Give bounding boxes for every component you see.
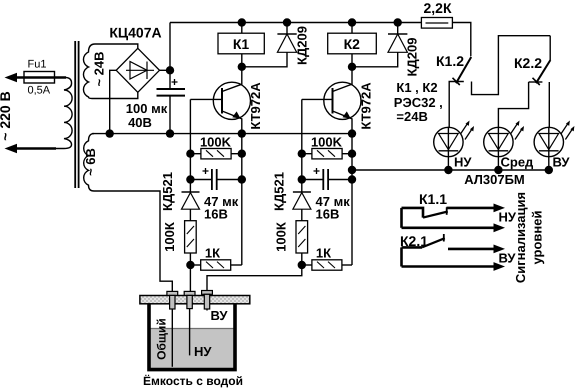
diode VD3 KD209 (K2)	[397, 23, 399, 35]
svg-text:ВУ: ВУ	[553, 155, 571, 170]
junction HL1 cathode on LED rail	[444, 166, 452, 174]
junction ch2 sensor node	[298, 261, 306, 269]
LED HL2 Sred	[484, 127, 513, 156]
junction Q2 emitter on 0V rail	[348, 129, 356, 137]
svg-text:0,5А: 0,5А	[27, 85, 50, 97]
svg-text:16В: 16В	[204, 207, 228, 222]
junction R1 left on Q1 base line	[186, 150, 194, 158]
junction R6 right on ch2 0V column	[348, 150, 356, 158]
junction K2 coil top on plus rail	[348, 18, 356, 26]
electrode NU	[184, 291, 195, 295]
junction Q2 collector node	[348, 63, 356, 71]
svg-text:КД521: КД521	[271, 172, 286, 211]
svg-text:2,2К: 2,2К	[423, 0, 451, 16]
junction VD3 cathode on plus rail	[394, 18, 402, 26]
junction HL2 cathode on LED rail	[494, 166, 502, 174]
svg-text:К1.2: К1.2	[436, 53, 464, 69]
svg-text:К1 , К2: К1 , К2	[396, 80, 437, 95]
svg-text:100K: 100K	[200, 135, 232, 150]
svg-text:КЦ407А: КЦ407А	[109, 25, 161, 41]
transistor Q1 KT972A	[213, 82, 250, 119]
transformer T1 core	[74, 41, 76, 188]
svg-text:~ 6В: ~ 6В	[83, 148, 98, 176]
diode VD5 KD521 (ch2)	[293, 191, 311, 193]
wire AC line 1 (top lead with arrow)	[15, 76, 66, 79]
tank walls	[149, 304, 235, 370]
junction C3 plus on Q2 base line	[298, 175, 306, 183]
contact K2.1 signaling	[402, 234, 495, 267]
wire AC line 2 (bottom lead with arrow)	[15, 147, 56, 150]
resistor R1 100K (ch1 base-emitter)	[201, 149, 231, 159]
svg-text:КТ972А: КТ972А	[359, 82, 374, 130]
LED HL3 VU	[534, 127, 563, 156]
junction VD2 cathode on plus rail	[283, 18, 291, 26]
transformer T1 secondary ~24V winding	[83, 44, 95, 99]
svg-text:+: +	[171, 75, 178, 89]
svg-text:Общий: Общий	[155, 318, 169, 360]
electrode common	[167, 291, 178, 295]
svg-text:РЭС32 ,: РЭС32 ,	[394, 95, 443, 110]
svg-text:К2: К2	[344, 36, 361, 52]
junction R1 right on ch1 0V column	[238, 150, 246, 158]
svg-text:100K: 100K	[311, 135, 343, 150]
svg-text:100К: 100К	[162, 222, 177, 252]
svg-text:1К: 1К	[316, 246, 331, 261]
wire ch1 sensor to electrode NU	[189, 265, 191, 292]
arrow AC lead 2	[5, 144, 18, 153]
wire bridge minus to 0V rail	[110, 70, 117, 133]
svg-text:КД209: КД209	[405, 38, 420, 77]
transformer T1 primary winding	[56, 78, 72, 149]
svg-text:НУ: НУ	[194, 344, 212, 359]
contact K1.1 signaling	[402, 207, 495, 228]
svg-text:К1: К1	[233, 36, 250, 52]
arrow AC lead 1	[5, 73, 18, 82]
svg-text:+: +	[202, 164, 209, 178]
channel 2 right column	[351, 134, 353, 265]
wire 2.2K to K1.2 common	[452, 23, 470, 57]
channel 2 base column	[301, 99, 303, 192]
diode VD2 KD209 (K1)	[286, 23, 288, 35]
junction C1 negative to 0V rail	[166, 129, 174, 137]
junction HL3 cathode on LED rail	[545, 166, 553, 174]
channel 1 right column	[241, 134, 243, 265]
junction R6 left on Q2 base line	[298, 150, 306, 158]
resistor R7 100K vertical (ch2)	[301, 209, 303, 221]
junction bridge minus to 0V rail	[106, 129, 114, 137]
resistor R6 100K (ch2 base-emitter)	[312, 149, 342, 159]
tank water	[151, 329, 234, 370]
LED HL1 NU	[434, 127, 463, 156]
wire 24V top to bridge	[95, 44, 138, 48]
relay K2 coil	[351, 23, 353, 34]
svg-text:НУ: НУ	[454, 155, 472, 170]
wire ch2 sensor to electrode VU	[207, 265, 302, 291]
diode VD4 KD521 (ch1)	[182, 191, 200, 193]
svg-text:Сред: Сред	[501, 155, 535, 170]
transformer T1 secondary ~6V winding	[84, 134, 94, 191]
svg-text:КД521: КД521	[160, 172, 175, 211]
svg-text:~ 220 В: ~ 220 В	[0, 91, 13, 140]
wire 6V winding to common electrode	[94, 191, 172, 292]
svg-text:Ёмкость с водой: Ёмкость с водой	[143, 374, 243, 388]
resistor R5 2.2K	[421, 18, 452, 29]
svg-text:=24В: =24В	[396, 109, 427, 124]
svg-text:~ 24В: ~ 24В	[92, 51, 107, 86]
wire 0V rail	[92, 133, 352, 135]
junction C3 minus on ch2 0V column	[348, 175, 356, 183]
wire 24V bottom to bridge bottom	[92, 92, 138, 98]
svg-text:К2.2: К2.2	[514, 55, 542, 71]
svg-text:16В: 16В	[316, 207, 340, 222]
resistor R3 1K (ch1)	[201, 260, 231, 270]
capacitor C1 100uF 40V	[169, 70, 171, 89]
bridge rectifier VD1 KC407A diamond	[116, 48, 159, 92]
svg-text:уровней: уровней	[530, 210, 545, 264]
tank lid	[140, 296, 250, 304]
wire bridge plus to top rail and cap	[160, 69, 171, 71]
svg-text:100К: 100К	[273, 222, 288, 252]
svg-text:Сигнализация: Сигнализация	[513, 192, 528, 283]
svg-text:КД209: КД209	[295, 26, 310, 65]
svg-text:Fu1: Fu1	[28, 59, 47, 71]
junction LED cathode rail to 0V column	[348, 166, 356, 174]
capacitor C3 47uF 16V (ch2)	[302, 179, 324, 181]
junction bridge plus output	[166, 66, 174, 74]
contact K2.2	[549, 36, 551, 60]
svg-text:ВУ: ВУ	[211, 308, 229, 323]
svg-text:КТ972А: КТ972А	[248, 82, 263, 130]
svg-text:АЛ307БМ: АЛ307БМ	[464, 172, 525, 187]
resistor R8 1K (ch2)	[312, 260, 342, 270]
svg-text:100 мк: 100 мк	[126, 101, 168, 116]
junction C2 minus on ch1 0V column	[238, 175, 246, 183]
junction Q1 collector node	[238, 63, 246, 71]
contact K1.2	[456, 57, 471, 83]
svg-text:+: +	[313, 164, 320, 178]
svg-text:К2.1: К2.1	[400, 233, 428, 249]
svg-text:40В: 40В	[128, 115, 152, 130]
svg-text:К1.1: К1.1	[419, 191, 447, 207]
junction C2 plus on Q1 base line	[186, 175, 194, 183]
electrode VU	[202, 291, 213, 295]
wire top rail	[170, 22, 421, 24]
fuse Fu1	[24, 72, 55, 84]
resistor R2 100K vertical (ch1)	[189, 209, 191, 221]
wire LED cathode rail	[352, 169, 549, 171]
relay K1 coil	[241, 23, 243, 34]
junction K1 coil top on plus rail	[238, 18, 246, 26]
junction Q1 emitter on 0V rail	[238, 129, 246, 137]
svg-text:1К: 1К	[205, 246, 220, 261]
transistor Q2 KT972A	[324, 82, 361, 119]
junction ch1 sensor node	[186, 261, 194, 269]
capacitor C2 47uF 16V (ch1)	[190, 179, 212, 181]
channel 1 base column	[189, 99, 191, 192]
bridge inner diode	[126, 69, 154, 71]
